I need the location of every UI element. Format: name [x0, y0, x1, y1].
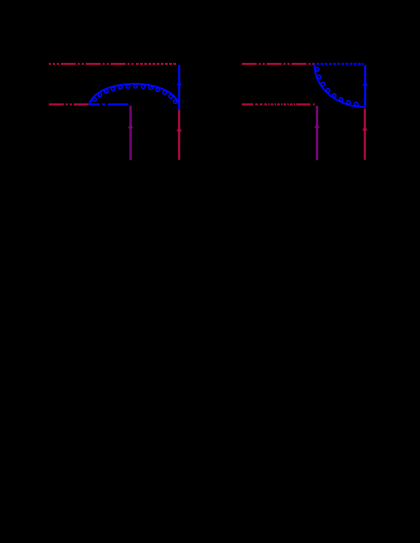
left diagram: purple vertical quark line [129, 106, 131, 161]
right diagram: gluon envelope arc [315, 65, 365, 108]
right diagram: top line after gluon emission (fine-dashed, blue) [317, 63, 364, 65]
right diagram: arrow on crimson vertical segment [362, 126, 368, 130]
right diagram: blue vertical quark segment (top right) [364, 65, 366, 108]
left diagram: gluon envelope arc [89, 84, 179, 105]
left diagram: arrow on crimson vertical segment [176, 127, 182, 131]
left diagram: arrow on blue vertical segment [176, 81, 182, 85]
left diagram: top antiquark line (dash-dot, crimson) [49, 63, 135, 65]
left diagram: bottom quark line after gluon emission (dashed, blue) [89, 103, 129, 105]
left diagram: bottom quark line before gluon emission (dash-dot, crimson) [49, 103, 89, 105]
right diagram: bottom quark line middle (fine-dashed, crimson) [264, 103, 295, 105]
left diagram: crimson vertical quark segment (bottom right) [178, 110, 180, 160]
right diagram: gluon coil rings [315, 68, 319, 72]
right diagram: purple vertical quark line [316, 106, 318, 160]
right diagram: crimson vertical quark segment (bottom right) [364, 109, 366, 160]
right diagram: arrow on purple vertical line [314, 123, 320, 127]
left diagram: gluon coil rings [93, 98, 97, 102]
right diagram: bottom quark line end dash (crimson) [296, 103, 314, 105]
left diagram: blue vertical quark segment (top right) [178, 65, 180, 109]
right diagram: bottom quark line start (dash-dot, crimson) [242, 103, 263, 105]
left diagram: top line right portion (fine-dashed, crimson) [135, 63, 177, 65]
right diagram: top quark line before gluon emission (dash-dot, crimson) [242, 63, 316, 65]
left diagram: arrow on purple vertical line [128, 124, 134, 128]
right diagram: arrow on blue vertical segment [362, 81, 368, 85]
